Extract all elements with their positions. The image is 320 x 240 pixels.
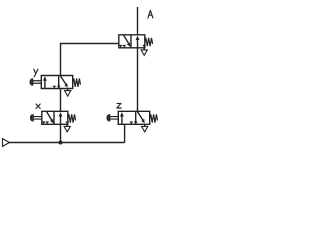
valve V1 right-box blocked port (143, 46, 146, 48)
valve V1 return spring (145, 38, 153, 46)
wire valve y output to pilot of valve V1 (61, 44, 119, 76)
valve y left-box blocked port (53, 86, 56, 88)
compressed air source (3, 139, 10, 147)
label z (117, 103, 121, 108)
valve z left-box blocked port (130, 122, 133, 124)
wire valve V1 supply from valve z output (137, 48, 139, 112)
valve x left-box blocked ports (42, 122, 49, 124)
valve z right-box exhaust flow path (138, 112, 145, 124)
valve y return spring (73, 79, 81, 87)
valve x return spring (68, 114, 76, 122)
valve x right-box blocked port (66, 122, 69, 124)
valve x push button actuator (30, 114, 42, 121)
valve V1 right-box flow path arrow (136, 36, 140, 48)
label A (148, 10, 153, 18)
valve x right-box flow path arrow (59, 112, 63, 124)
valve z push button actuator (107, 114, 119, 121)
valve x body (42, 111, 68, 124)
valve V1 left-box exhaust flow path (124, 35, 131, 47)
valve y right-box exhaust flow path (61, 76, 68, 88)
wire valve x supply (60, 124, 62, 142)
wire supply line (9, 142, 124, 144)
valve y left-box flow path arrow (43, 76, 47, 88)
valve z left-box flow path arrow (120, 112, 124, 124)
valve x exhaust port silencer (64, 124, 70, 132)
valve V1 body (119, 35, 145, 48)
valve V1 left-box blocked ports (119, 46, 126, 48)
valve z right-box blocked port (134, 122, 137, 124)
valve x left-box exhaust flow path (47, 112, 54, 124)
valve z body (118, 111, 149, 124)
label x (36, 104, 40, 108)
wire valve z supply (124, 124, 126, 142)
valve z return spring (150, 114, 158, 122)
valve y push button actuator (30, 78, 42, 85)
valve z exhaust port silencer (142, 124, 148, 132)
valve y body (41, 76, 72, 89)
valve y right-box blocked port (57, 86, 60, 88)
wire valve x output to valve y supply (60, 89, 62, 112)
valve V1 exhaust port silencer (141, 48, 147, 56)
valve y exhaust port silencer (65, 89, 71, 97)
wire to output A (137, 7, 139, 35)
junction node (59, 141, 63, 145)
label y (34, 69, 38, 76)
